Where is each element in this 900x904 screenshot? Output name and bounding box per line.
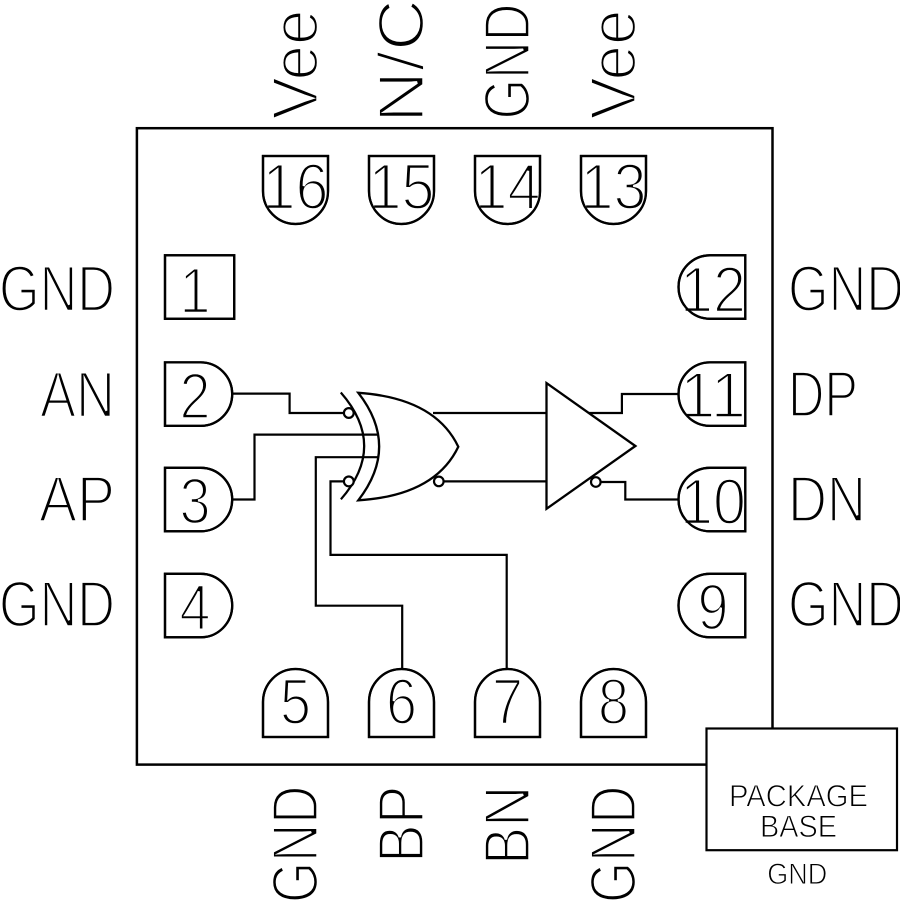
svg-text:8: 8 (598, 665, 629, 738)
svg-text:GND: GND (0, 568, 115, 641)
pin 7 (475, 665, 540, 738)
XOR gate U2 input arc (341, 393, 364, 500)
svg-text:16: 16 (263, 150, 329, 223)
svg-text:AP: AP (39, 463, 115, 536)
svg-text:3: 3 (180, 465, 211, 538)
svg-text:GND: GND (788, 252, 900, 325)
svg-text:Vee: Vee (259, 10, 332, 120)
outline repaint (keeps pin outlines crisp over text halos) (165, 156, 745, 737)
svg-text:4: 4 (180, 571, 211, 644)
pin 4 (165, 571, 232, 644)
svg-text:GND: GND (471, 4, 544, 120)
svg-text:7: 7 (492, 665, 523, 738)
svg-text:6: 6 (386, 665, 417, 738)
svg-text:BASE: BASE (760, 808, 837, 844)
XOR input bubble (AN) (344, 408, 354, 418)
svg-text:N/C: N/C (365, 0, 438, 123)
pin 15 (369, 150, 435, 224)
pin 8 (581, 665, 646, 738)
package base box (707, 729, 898, 851)
XOR output bubble (Qbar) (434, 477, 444, 487)
pin 12 (679, 253, 746, 326)
svg-text:15: 15 (369, 150, 435, 223)
pin 10 (679, 465, 746, 538)
svg-text:DN: DN (788, 463, 866, 536)
pin 6 (369, 665, 434, 738)
pin 1 (square pad) (165, 254, 234, 327)
pin 3 (165, 465, 232, 538)
svg-text:GND: GND (259, 786, 332, 904)
pin 13 (581, 150, 647, 224)
wire AN: pin2 to XOR inverting input (233, 394, 344, 413)
svg-text:1: 1 (180, 254, 211, 327)
svg-text:BP: BP (365, 786, 438, 864)
svg-text:2: 2 (180, 360, 211, 433)
svg-text:GND: GND (577, 786, 650, 904)
svg-text:AN: AN (40, 358, 115, 431)
XOR gate U2 body (358, 393, 458, 501)
IC package body outline U1 (137, 128, 773, 764)
XOR input bubble (BN) (344, 477, 354, 487)
svg-text:GND: GND (788, 568, 900, 641)
svg-text:14: 14 (475, 150, 541, 223)
wire BN: pin7 to XOR inverting input (331, 481, 507, 670)
wire DN: buffer inverted output to pin10 (601, 482, 678, 500)
wire AP: pin3 to XOR input (233, 435, 378, 500)
wire BP: pin6 to XOR input (316, 457, 402, 670)
svg-text:Vee: Vee (577, 10, 650, 120)
pin 11 (679, 359, 746, 432)
pin 14 (475, 150, 541, 224)
pin 9 (679, 571, 746, 644)
svg-text:GND: GND (767, 858, 827, 891)
svg-text:5: 5 (280, 665, 311, 738)
svg-text:GND: GND (0, 252, 115, 325)
buffer inverted output bubble (591, 477, 601, 487)
pin 16 (263, 150, 329, 224)
svg-text:DP: DP (788, 358, 858, 431)
wire DP: buffer output to pin11 (589, 394, 678, 413)
wire XOR output Qbar to buffer (444, 480, 547, 482)
buffer amplifier U3 (547, 383, 636, 509)
wire XOR output Q to buffer (433, 412, 547, 414)
svg-text:BN: BN (471, 786, 544, 866)
pin 2 (165, 360, 232, 433)
svg-text:13: 13 (581, 150, 647, 223)
pin 5 (263, 665, 328, 738)
svg-text:9: 9 (698, 571, 729, 644)
